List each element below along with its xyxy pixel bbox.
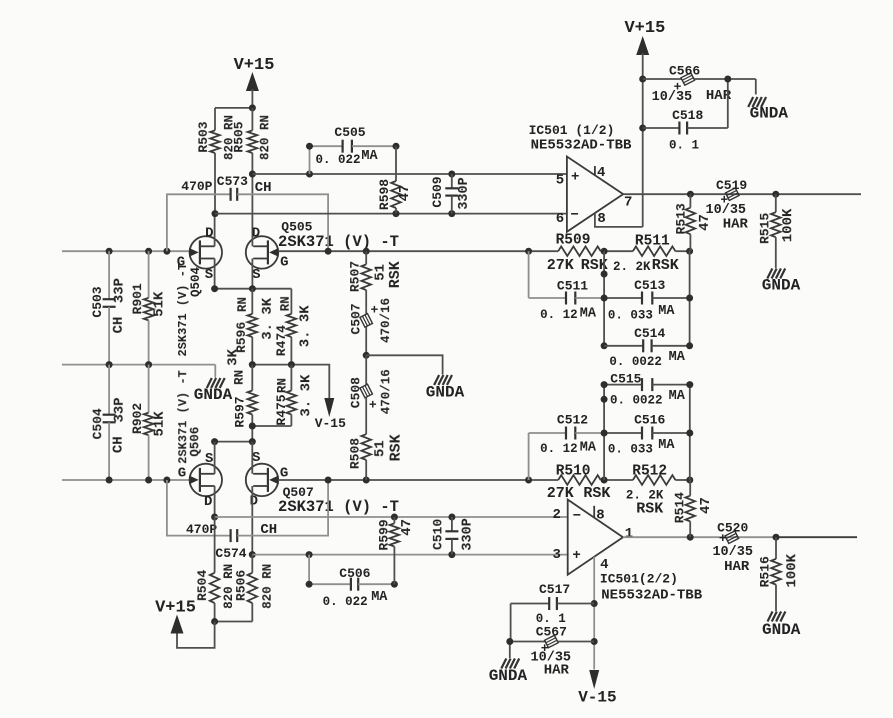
- label R508: [348, 438, 363, 469]
- node C506 left bottom: [306, 581, 313, 588]
- resistor R510: [558, 475, 601, 485]
- capacitor C518: [643, 79, 728, 135]
- svg-text:C508: C508: [348, 377, 363, 408]
- svg-text:S: S: [205, 451, 213, 467]
- svg-text:R504: R504: [195, 570, 210, 601]
- label C518 value 0. 1: [669, 139, 699, 153]
- node C505 right top: [393, 143, 400, 150]
- svg-text:R599: R599: [376, 519, 391, 550]
- wire U2 output: [623, 536, 857, 538]
- svg-text:V-15: V-15: [578, 688, 616, 706]
- node C514 right: [686, 342, 693, 349]
- label C519 type HAR: [723, 217, 749, 233]
- capacitor C519 (electrolytic): [725, 188, 739, 200]
- svg-text:D: D: [204, 494, 212, 510]
- wire Q506 source lead: [214, 442, 216, 474]
- label Q504 G: [177, 255, 185, 271]
- label C503 value 33P: [112, 278, 128, 303]
- node V+15 tap: [211, 618, 218, 625]
- label R515 value 100K: [780, 208, 796, 242]
- svg-text:HAR: HAR: [723, 217, 749, 233]
- resistor R597: [248, 365, 258, 426]
- capacitor C511: [529, 251, 605, 304]
- label C566 type HAR: [706, 88, 732, 104]
- node C517 right: [591, 600, 598, 607]
- node input C503: [106, 248, 113, 255]
- label Q505 G: [280, 255, 288, 271]
- pin 4 stub U2 / V-15 line: [593, 557, 595, 670]
- node C567 right: [591, 638, 598, 645]
- node C574 right tap: [325, 477, 332, 484]
- label C505: [334, 125, 365, 140]
- svg-text:C517: C517: [539, 582, 570, 597]
- resistor R598: [391, 146, 401, 213]
- label Q505 D: [252, 226, 260, 242]
- svg-text:GNDA: GNDA: [426, 383, 465, 401]
- svg-text:R597: R597: [233, 396, 248, 427]
- node gnd C504: [106, 361, 113, 368]
- label Q506 type 2SK371 (V) -T: [176, 370, 190, 464]
- wire Q507 source lead: [251, 442, 253, 474]
- node R509/R511 junction: [601, 248, 608, 255]
- label Q504 D: [205, 226, 213, 242]
- label R511 type RSK: [652, 257, 679, 274]
- label C516: [634, 413, 665, 428]
- label C503 type CH: [111, 317, 127, 334]
- node mid extra ch2: [601, 396, 608, 403]
- svg-text:RSK: RSK: [388, 434, 405, 461]
- label IC501 type NE5532AD-TBB (2): [601, 588, 702, 604]
- capacitor C513: [604, 292, 690, 305]
- svg-text:330P: 330P: [461, 518, 476, 550]
- label C567 plus: [541, 641, 549, 656]
- svg-text:+: +: [571, 170, 579, 186]
- svg-text:RN: RN: [233, 370, 247, 385]
- transistor Q507: [246, 464, 279, 496]
- svg-text:R511: R511: [635, 234, 670, 250]
- wire Q505 drain: [251, 236, 253, 246]
- wire to GNDA (middle): [366, 355, 442, 374]
- label pin 6: [556, 211, 564, 227]
- label R598 value 47: [397, 185, 413, 202]
- label R504: [195, 570, 210, 601]
- wire mid ladder to V-15: [252, 365, 329, 398]
- node R598 bottom: [393, 210, 400, 217]
- svg-text:+: +: [572, 548, 580, 564]
- node Q507 drain / pin3 tap: [249, 551, 256, 558]
- label C574 type CH: [260, 522, 277, 538]
- label IC501 type NE5532AD-TBB: [531, 138, 632, 154]
- resistor R516: [771, 537, 781, 611]
- svg-text:S: S: [252, 450, 260, 466]
- label R507: [348, 261, 363, 292]
- node R508 bottom: [363, 477, 370, 484]
- label C520 type HAR: [724, 559, 750, 575]
- svg-text:C510: C510: [430, 519, 445, 550]
- label C519: [716, 178, 747, 193]
- power V+15 (bottom): [155, 599, 196, 634]
- label R514: [672, 492, 687, 523]
- svg-text:GNDA: GNDA: [194, 386, 233, 404]
- svg-text:R515: R515: [757, 213, 772, 244]
- svg-text:5: 5: [556, 173, 564, 189]
- svg-text:RSK: RSK: [652, 257, 679, 274]
- capacitor C516: [604, 427, 690, 440]
- label R512 value 2. 2K: [626, 488, 664, 502]
- label R596 RN: [236, 297, 250, 312]
- label minus input U1: [570, 207, 578, 223]
- svg-text:R596: R596: [234, 322, 249, 353]
- node R474 bottom: [288, 361, 295, 368]
- label R509: [556, 233, 591, 249]
- label R475 value 3. 3K: [298, 374, 314, 417]
- node R507 top: [363, 248, 370, 255]
- capacitor C517: [511, 597, 595, 642]
- node C518 left: [639, 125, 646, 132]
- label R902: [130, 403, 145, 434]
- ground GNDA (bottom): [489, 659, 528, 686]
- label plus input U2: [572, 548, 580, 564]
- node C506 right bottom: [391, 581, 398, 588]
- capacitor C573: [167, 188, 328, 251]
- label C511 type MA: [580, 307, 597, 322]
- node C513 right: [686, 295, 693, 302]
- label pin 1: [625, 526, 633, 542]
- transistor Q506: [189, 464, 222, 496]
- wire op-amp pin2 (-) net: [215, 516, 568, 518]
- svg-text:0. 12: 0. 12: [540, 442, 578, 456]
- svg-text:RN: RN: [279, 296, 293, 311]
- label R475: [274, 394, 289, 425]
- svg-text:G: G: [178, 466, 186, 482]
- capacitor C506: [309, 555, 394, 591]
- svg-text:CH: CH: [255, 180, 272, 196]
- ground GNDA (R516): [762, 612, 801, 640]
- svg-text:GNDA: GNDA: [762, 276, 801, 294]
- node R505 pin5 tap: [249, 171, 256, 178]
- power V-15 (bottom): [578, 670, 616, 706]
- label C513 type MA: [658, 304, 675, 319]
- node C515 left: [601, 381, 608, 388]
- node C516 right: [686, 430, 693, 437]
- svg-text:R901: R901: [130, 283, 145, 314]
- resistor R513: [686, 194, 696, 251]
- label C508 value 470/16: [379, 369, 393, 414]
- svg-text:C506: C506: [339, 566, 370, 581]
- svg-text:MA: MA: [669, 350, 686, 365]
- wire R504/R506 bottoms: [215, 621, 253, 623]
- ground GNDA (input rail): [194, 378, 233, 404]
- wire Q504 drain: [214, 214, 216, 247]
- label Q506 ref: [189, 427, 203, 457]
- pin 4 stub U1: [594, 166, 596, 175]
- label R510 type RSK: [583, 485, 610, 502]
- label C573 value 470P: [181, 179, 212, 194]
- svg-text:Q506: Q506: [189, 427, 203, 457]
- pin 8 stub U2: [593, 506, 595, 518]
- svg-text:1: 1: [625, 526, 633, 542]
- wire feedback right vertical ch2: [689, 385, 691, 480]
- label R596: [234, 322, 249, 353]
- node C511/C513 junction: [601, 295, 608, 302]
- node input2 R902: [145, 477, 152, 484]
- label R902 value 51K: [152, 411, 168, 437]
- node R511 right: [686, 248, 693, 255]
- label R514 value 47: [698, 497, 714, 514]
- wire input L-ch: [62, 250, 191, 252]
- wire to V+15 bottom: [177, 622, 215, 648]
- node C512/C516 junction: [601, 430, 608, 437]
- svg-text:4: 4: [597, 165, 605, 181]
- svg-text:10/35: 10/35: [652, 90, 693, 105]
- svg-text:0. 0022: 0. 0022: [610, 394, 663, 408]
- svg-text:+: +: [370, 302, 378, 317]
- svg-text:RSK: RSK: [387, 261, 404, 288]
- label Q507 ref: [283, 485, 314, 500]
- svg-text:MA: MA: [658, 438, 675, 453]
- svg-text:27K: 27K: [547, 257, 574, 274]
- label R596 value 3. 3K: [260, 297, 276, 340]
- transistor Q504: [189, 236, 222, 268]
- label Q504 S: [205, 267, 213, 283]
- node Q507 source: [249, 438, 256, 445]
- label C567 type HAR: [544, 662, 570, 678]
- svg-text:470/16: 470/16: [379, 369, 393, 414]
- svg-text:0. 1: 0. 1: [669, 139, 699, 153]
- node R513 top: [687, 191, 694, 198]
- svg-text:R902: R902: [130, 403, 145, 434]
- svg-text:R507: R507: [348, 261, 363, 292]
- label C504 value 33P: [112, 397, 128, 422]
- label C508: [348, 377, 363, 408]
- label R509 value 27K: [547, 257, 574, 274]
- label IC501 (1/2): [529, 123, 615, 138]
- svg-text:NE5532AD-TBB: NE5532AD-TBB: [601, 588, 702, 604]
- label C514 value 0. 0022: [609, 355, 662, 369]
- label Q507 S: [252, 450, 260, 466]
- svg-text:2. 2K: 2. 2K: [613, 260, 651, 274]
- label Q506 G: [178, 466, 186, 482]
- svg-text:RSK: RSK: [583, 485, 610, 502]
- label C573: [217, 174, 248, 189]
- svg-text:G: G: [280, 255, 288, 271]
- node R516 top: [773, 534, 780, 541]
- svg-text:470/16: 470/16: [379, 298, 393, 343]
- svg-text:R506: R506: [234, 570, 249, 601]
- label R516 value 100K: [784, 553, 800, 587]
- label C509 value 330P: [457, 177, 472, 209]
- capacitor C574: [167, 480, 328, 542]
- svg-text:R516: R516: [757, 556, 772, 587]
- svg-text:0. 033: 0. 033: [608, 308, 653, 322]
- svg-text:C516: C516: [634, 413, 665, 428]
- svg-text:C566: C566: [669, 64, 700, 79]
- node C506 left tap: [306, 551, 313, 558]
- label R515: [757, 213, 772, 244]
- label pin 7: [624, 195, 632, 211]
- svg-text:0. 033: 0. 033: [608, 443, 653, 457]
- resistor R901: [144, 251, 154, 364]
- svg-text:IC501(2/2): IC501(2/2): [600, 572, 678, 587]
- svg-text:R475: R475: [274, 394, 289, 425]
- capacitor C505: [310, 140, 397, 174]
- svg-text:D: D: [205, 226, 213, 242]
- resistor R511: [633, 246, 676, 256]
- svg-text:C504: C504: [90, 408, 105, 439]
- label C514: [634, 326, 665, 341]
- svg-text:0. 022: 0. 022: [323, 595, 368, 609]
- svg-text:100K: 100K: [780, 208, 796, 242]
- svg-text:8: 8: [596, 508, 604, 524]
- label minus input U2: [573, 509, 581, 525]
- label C515 type MA: [669, 389, 686, 404]
- svg-text:R514: R514: [672, 492, 687, 523]
- resistor R599: [390, 517, 400, 584]
- wire Q504/Q505 sources: [215, 288, 292, 290]
- wire Q505 gate feedback rail: [278, 250, 689, 252]
- svg-text:51: 51: [373, 440, 389, 457]
- svg-text:MA: MA: [580, 441, 597, 456]
- label C566 value 10/35: [652, 90, 693, 105]
- label C520 plus: [719, 531, 727, 546]
- node R512 right: [686, 477, 693, 484]
- node Q506 drain / pin2 tap: [211, 514, 218, 521]
- svg-text:0. 0022: 0. 0022: [609, 355, 662, 369]
- wire Q506/Q507 sources: [215, 441, 253, 443]
- svg-text:MA: MA: [361, 149, 378, 164]
- node R510/R512 junction: [601, 477, 608, 484]
- capacitor C512: [529, 427, 605, 481]
- capacitor C566 (electrolytic): [643, 73, 756, 95]
- svg-text:R505: R505: [231, 121, 246, 152]
- svg-text:33P: 33P: [112, 397, 128, 422]
- label C519 plus: [720, 193, 728, 208]
- label R506 value 820 RN: [261, 564, 275, 609]
- label C566 plus: [674, 79, 682, 94]
- svg-text:820 RN: 820 RN: [261, 564, 275, 609]
- label R474 value 3. 3K: [297, 305, 313, 348]
- label C514 type MA: [669, 350, 686, 365]
- svg-text:C505: C505: [334, 125, 365, 140]
- svg-text:2SK371 (V) -T: 2SK371 (V) -T: [176, 263, 190, 357]
- label pin 4 U2: [600, 557, 608, 573]
- node C567 left: [506, 638, 513, 645]
- svg-text:3. 3K: 3. 3K: [298, 374, 314, 417]
- wire U1 output: [623, 193, 861, 195]
- wire R597/R475 bottoms: [252, 426, 291, 442]
- wire Q507 drain lead: [251, 486, 253, 555]
- node input2 C574 tap: [163, 477, 170, 484]
- label C566: [669, 64, 700, 79]
- label C574 value 470P: [186, 522, 217, 537]
- wire top split to R503/R505: [215, 108, 252, 130]
- label R901: [130, 283, 145, 314]
- node C511 tap: [525, 248, 532, 255]
- svg-text:33P: 33P: [112, 278, 128, 303]
- svg-text:R503: R503: [196, 121, 211, 152]
- svg-text:V+15: V+15: [624, 19, 665, 38]
- svg-text:C515: C515: [610, 371, 641, 386]
- svg-text:RN: RN: [236, 297, 250, 312]
- svg-text:R508: R508: [348, 438, 363, 469]
- label R510: [556, 464, 591, 480]
- label R503: [196, 121, 211, 152]
- svg-text:C573: C573: [217, 174, 248, 189]
- svg-text:47: 47: [397, 185, 413, 202]
- label C505 value 0. 022: [315, 153, 360, 167]
- capacitor C514: [604, 339, 690, 352]
- node gnd R902: [145, 361, 152, 368]
- op-amp IC501 (1/2): [567, 157, 623, 232]
- svg-text:+: +: [719, 531, 727, 546]
- node input R901: [145, 248, 152, 255]
- label R474 RN: [279, 296, 293, 311]
- node C566 left: [639, 76, 646, 83]
- node C514 left: [601, 342, 608, 349]
- svg-text:C574: C574: [215, 546, 246, 561]
- label pin 5: [556, 173, 564, 189]
- label C515: [610, 371, 641, 386]
- label C512 value 0. 12: [540, 442, 578, 456]
- svg-text:100K: 100K: [784, 553, 800, 587]
- svg-text:4: 4: [600, 557, 608, 573]
- svg-text:Q504: Q504: [189, 267, 203, 298]
- svg-text:S: S: [252, 267, 260, 283]
- label R507 type RSK: [387, 261, 404, 288]
- svg-text:10/35: 10/35: [712, 545, 753, 560]
- node R597 bottom: [249, 423, 256, 430]
- node R515 top: [772, 191, 779, 198]
- label R511 value 2. 2K: [613, 260, 651, 274]
- svg-text:330P: 330P: [457, 177, 472, 209]
- label pin 8 U2: [596, 508, 604, 524]
- node C505 left: [306, 171, 313, 178]
- svg-text:2SK371 (V) -T: 2SK371 (V) -T: [278, 498, 399, 516]
- label C574: [215, 546, 246, 561]
- svg-text:V+15: V+15: [155, 599, 196, 618]
- svg-text:47: 47: [697, 214, 713, 231]
- wire Q504 source: [214, 259, 216, 289]
- label C506: [339, 566, 370, 581]
- label plus input U1: [571, 170, 579, 186]
- svg-text:47: 47: [399, 519, 415, 536]
- node R596 bottom: [249, 361, 256, 368]
- label R510 value 27K: [547, 485, 574, 502]
- label Q504 type 2SK371 (V) -T: [176, 263, 190, 357]
- label C511: [557, 278, 588, 293]
- label R901 value 51K: [152, 291, 168, 317]
- label C510: [430, 519, 445, 550]
- svg-text:IC501 (1/2): IC501 (1/2): [529, 123, 615, 138]
- label C504 type CH: [111, 436, 127, 453]
- svg-text:R510: R510: [556, 464, 591, 480]
- label C511 value 0. 12: [540, 308, 578, 322]
- label C507: [348, 303, 363, 334]
- node input C573 tap: [163, 248, 170, 255]
- label R597 ref: [233, 396, 248, 427]
- svg-text:0. 022: 0. 022: [315, 153, 360, 167]
- label C517: [539, 582, 570, 597]
- label Q506 D: [204, 494, 212, 510]
- wire Q507 gate feedback rail: [278, 479, 690, 481]
- label Q505 type 2SK371 (V) -T: [278, 233, 399, 251]
- wire Q505 source: [251, 259, 253, 289]
- label Q507 G: [280, 466, 288, 482]
- svg-text:GNDA: GNDA: [750, 104, 789, 122]
- label Q504 ref: [189, 267, 203, 298]
- svg-text:2SK371 (V) -T: 2SK371 (V) -T: [278, 233, 399, 251]
- svg-text:CH: CH: [111, 436, 127, 453]
